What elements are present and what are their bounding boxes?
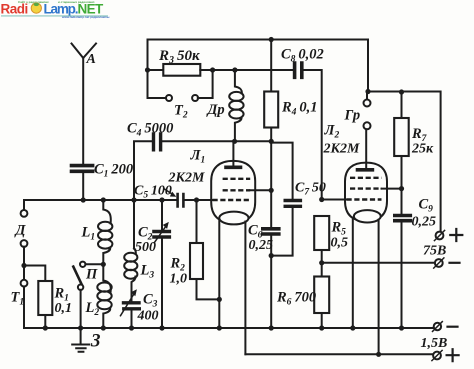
node Л1 grid junction	[269, 188, 274, 193]
wire T1 to bottom rail	[23, 286, 25, 328]
inductor L2	[103, 264, 111, 328]
resistor R4	[264, 92, 278, 128]
wire R3 right to C8 node	[200, 69, 271, 71]
tube Л1 base	[219, 212, 248, 225]
svg-text:С1 200: С1 200	[94, 162, 133, 180]
wire Л2 left filament leg	[352, 220, 354, 329]
wire lower 1.5V rail	[245, 353, 433, 355]
minus sign 1.5V	[448, 326, 458, 328]
resistor R5	[314, 216, 329, 250]
svg-text:Д: Д	[14, 223, 27, 239]
tube Л2 grid g3	[350, 177, 382, 179]
capacitor C9	[395, 216, 411, 221]
wire R1 top lead	[24, 266, 45, 282]
svg-text:3: 3	[90, 331, 101, 352]
svg-text:R3 50к: R3 50к	[158, 48, 200, 66]
wire C9 top lead	[401, 189, 403, 214]
svg-text:С8 0,02: С8 0,02	[281, 47, 324, 65]
svg-text:R6 700: R6 700	[276, 290, 316, 308]
svg-text:0,25: 0,25	[249, 238, 274, 253]
capacitor C1	[72, 166, 93, 172]
node R7 top junction	[399, 89, 404, 94]
switch П lower contact	[78, 285, 83, 290]
resistor R2	[190, 243, 203, 279]
terminal +75V	[436, 232, 444, 240]
tube Л2 grid g1	[347, 198, 382, 200]
plus sign 1.5V	[447, 349, 459, 361]
tube Л2 base	[354, 210, 381, 222]
wire C4 to anode node	[162, 140, 271, 142]
node R1 tap junction	[21, 263, 26, 268]
resistor R6	[314, 277, 329, 314]
wire +75V feed	[368, 40, 441, 232]
wire Л1 g2 lead	[250, 189, 271, 191]
node R5-R6 junction	[319, 260, 324, 265]
wire bus up to C4	[134, 141, 152, 200]
tube U2 Л2 envelope	[345, 163, 387, 221]
node Л2 right leg lower rail junction	[376, 352, 381, 357]
wire C2 branch lower	[161, 239, 163, 328]
svg-text:500: 500	[135, 240, 156, 255]
terminal T1 circle	[21, 280, 28, 287]
wire R7 top lead	[401, 92, 403, 118]
tube Л1 grid g3	[223, 178, 251, 180]
wire Л1 left filament leg	[218, 221, 220, 329]
node R3 left junction	[145, 67, 150, 72]
node choke top junction	[232, 67, 237, 72]
node C3-rail junction	[129, 325, 134, 330]
tube Л2 anode plate	[358, 168, 373, 172]
svg-text:Гр: Гр	[344, 108, 361, 124]
svg-text:0,1: 0,1	[55, 301, 73, 316]
wire C2 branch upper	[161, 200, 163, 230]
wire R2 top lead	[196, 200, 198, 243]
wire R2 bottom link to filament leg	[197, 279, 220, 299]
svg-text:2К2М: 2К2М	[323, 142, 360, 157]
terminal -1.5V	[434, 323, 441, 330]
svg-text:Др: Др	[206, 102, 225, 118]
resistor R7	[394, 118, 409, 156]
wire R3 left lead	[148, 69, 164, 71]
svg-text:NET: NET	[78, 1, 105, 16]
capacitor C7	[285, 201, 300, 207]
wire Д to T1 column	[23, 247, 25, 280]
svg-text:www.radiolamp.net радиолампы: www.radiolamp.net радиолампы	[61, 15, 110, 19]
node L2-rail junction	[101, 325, 106, 330]
wire T2 right lead	[198, 70, 213, 98]
node anode-choke junction	[232, 139, 237, 144]
wire main bus left of C5	[24, 200, 176, 210]
svg-text:0,5: 0,5	[331, 236, 349, 251]
svg-text:400: 400	[137, 309, 159, 324]
node T2 right junction	[210, 67, 215, 72]
tube Л1 grid g1	[213, 199, 251, 201]
wire R1 bottom lead	[44, 315, 46, 328]
ground	[72, 328, 89, 352]
wire L3 branch down	[133, 200, 135, 249]
label arrow C5	[165, 189, 173, 195]
wire Гр to anode Л2	[365, 129, 367, 168]
inductor L1	[103, 200, 111, 264]
node C2 bus junction	[159, 197, 164, 202]
switch П blade	[73, 267, 81, 285]
tube Л1 grid g2	[223, 189, 251, 191]
svg-text:А: А	[86, 52, 96, 67]
resistor R1	[38, 281, 52, 315]
wire left vertical to R3/T2	[148, 40, 167, 99]
wire R6 top lead	[321, 263, 323, 277]
svg-text:Radi: Radi	[1, 1, 28, 16]
node R2 bus junction	[194, 197, 199, 202]
terminal -75V	[435, 259, 443, 267]
wire Л2 right filament leg	[378, 220, 380, 354]
node R1-rail junction	[43, 325, 48, 330]
node C4/L3 bus junction	[131, 197, 136, 202]
wire -75V line	[322, 262, 435, 264]
terminal T2 left circle	[166, 95, 172, 101]
wire C8 node vertical	[270, 40, 272, 92]
svg-text:С7 50: С7 50	[295, 181, 326, 198]
wire top rail	[148, 39, 369, 41]
wire R5 bottom lead	[321, 250, 323, 263]
terminal Д upper circle	[21, 210, 28, 217]
svg-text:R4 0,1: R4 0,1	[281, 100, 317, 118]
wire Л1 right filament leg	[244, 222, 246, 355]
wire C9 to rail	[401, 222, 403, 328]
node Л2 grid junction	[399, 186, 404, 191]
choke Др	[235, 70, 242, 141]
wire R6 bottom lead	[321, 313, 323, 328]
svg-text:С5 100: С5 100	[134, 184, 172, 201]
wire junction to switch П	[85, 263, 103, 265]
trimmer arrow C2	[154, 226, 166, 243]
node L1-bus junction	[101, 197, 106, 202]
node C6-rail junction	[269, 325, 274, 330]
tube Л2 grid g2	[350, 187, 382, 189]
svg-text:2К2М: 2К2М	[168, 171, 205, 186]
node C8/R4 top rail junction	[269, 37, 274, 42]
wire C7 stub	[271, 143, 292, 199]
capacitor C5	[178, 194, 184, 207]
terminal Гр upper circle	[364, 100, 371, 107]
terminal +1.5V	[433, 352, 441, 360]
resistor R3	[163, 64, 200, 76]
node leg-rail junction	[217, 325, 222, 330]
wire anode lead Л1	[232, 141, 234, 165]
svg-text:75В: 75В	[423, 244, 446, 259]
wire C1 to bus	[82, 173, 84, 200]
wire bottom rail	[24, 327, 434, 329]
svg-text:П: П	[85, 267, 98, 283]
capacitor C2	[154, 232, 169, 238]
inductor L3	[132, 249, 136, 301]
terminal T2 right circle	[192, 95, 198, 101]
node Гр top junction	[365, 89, 370, 94]
node L1-L2-switch junction	[101, 262, 106, 267]
svg-text:1,0: 1,0	[170, 272, 188, 287]
wire main bus right of C5	[185, 199, 213, 201]
wire C7 bottom link	[271, 208, 292, 256]
wire R4 vertical down to C6	[270, 128, 272, 228]
terminal Гр lower circle	[364, 122, 371, 129]
node C1-bus junction	[81, 197, 86, 202]
wire R7 bottom lead	[401, 156, 403, 189]
wire C8 left lead	[271, 69, 293, 71]
node C9-rail junction	[399, 325, 404, 330]
node Л2 left leg rail junction	[350, 325, 355, 330]
wire grid entry Л2	[322, 199, 347, 201]
node C6-C7 junction	[269, 253, 274, 258]
wire Гр top stub	[366, 92, 368, 100]
antenna A	[72, 44, 97, 164]
switch П upper contact	[80, 262, 85, 267]
node R5 top junction	[319, 197, 324, 202]
wire C6 to rail	[270, 236, 272, 328]
wire Л2 g2 lead	[382, 188, 402, 190]
tube U1 Л1 envelope	[211, 161, 255, 223]
node R6-rail junction	[319, 325, 324, 330]
wire C8 right to Л2 grid	[304, 70, 322, 200]
minus sign 75V	[450, 262, 460, 264]
node ground junction	[78, 325, 83, 330]
capacitor C3	[124, 303, 140, 309]
wire C3 to rail	[131, 311, 133, 328]
terminal Д lower circle	[21, 240, 28, 247]
svg-text:С4 5000: С4 5000	[127, 121, 173, 139]
capacitor C8	[295, 63, 302, 77]
svg-text:1,5В: 1,5В	[421, 336, 448, 351]
trimmer arrow C3	[121, 294, 135, 316]
tube Л1 anode plate	[226, 166, 241, 170]
svg-text:Lamp.: Lamp.	[44, 1, 78, 16]
node R2-leg junction	[217, 297, 222, 302]
node R4-anode-line junction	[269, 139, 274, 144]
svg-text:0,25: 0,25	[412, 215, 437, 230]
wire П to bottom rail	[80, 290, 82, 328]
svg-text:25к: 25к	[411, 142, 434, 157]
capacitor C4	[154, 134, 161, 150]
node C2-rail junction	[159, 325, 164, 330]
capacitor C6	[263, 229, 279, 234]
plus sign 75V	[450, 229, 462, 241]
